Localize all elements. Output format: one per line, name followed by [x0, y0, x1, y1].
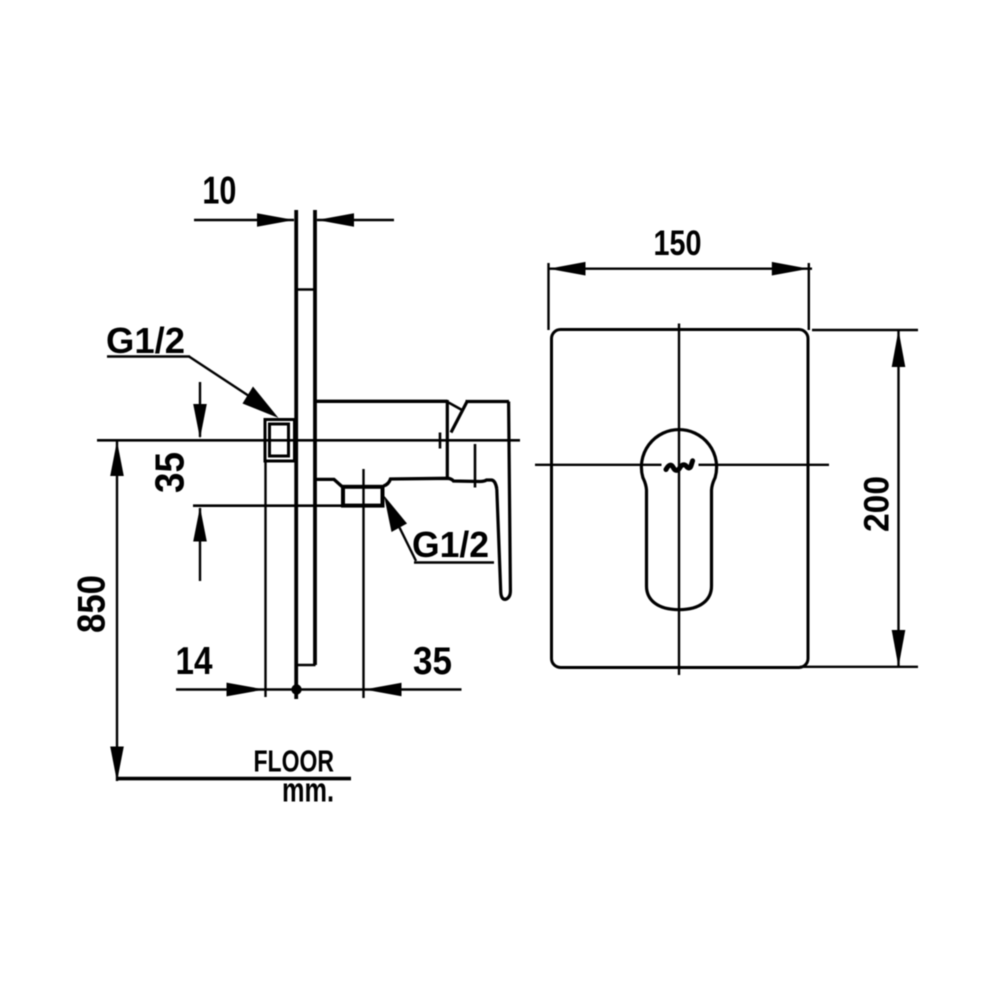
svg-text:150: 150: [654, 224, 702, 263]
cartridge tick lower: [474, 444, 477, 488]
svg-text:35: 35: [413, 640, 452, 683]
dimension 10 line left: [194, 219, 294, 221]
label G1/2 bottom underline: [414, 561, 494, 563]
body bottom edge with dip: [315, 478, 497, 489]
outlet fitting G1/2 bottom: [343, 487, 383, 506]
svg-text:10: 10: [202, 170, 236, 213]
dimension 35 left upper line: [199, 382, 201, 437]
dimension 10 arrow left-pointing: [317, 213, 354, 227]
dimension 200 arrow down: [892, 630, 906, 667]
handle lever outline: [497, 402, 511, 600]
wall right line: [313, 210, 317, 665]
dimension 150 extension left: [547, 263, 549, 330]
svg-text:850: 850: [71, 575, 114, 633]
dimension 35 left lower arrow up: [193, 507, 207, 542]
outlet centerline bottom: [193, 504, 383, 507]
dimension 14 arrow right-pointing: [227, 683, 265, 697]
label G1/2 top leader line: [189, 357, 252, 399]
dimension 35 left lower line: [199, 508, 201, 581]
dimension 35 bottom arrow left-pointing: [365, 683, 402, 697]
inlet fitting G1/2 top outer: [265, 420, 295, 462]
svg-text:mm.: mm.: [282, 772, 334, 810]
dimension 35 left upper arrow down: [193, 404, 207, 439]
label G1/2 top underline: [107, 355, 190, 357]
dimension 850 line: [116, 441, 118, 781]
svg-text:G1/2: G1/2: [106, 320, 185, 361]
label G1/2 top leader arrowhead: [243, 387, 279, 419]
wall bottom cap: [296, 664, 316, 666]
mixer body right edge: [446, 400, 449, 478]
label G1/2 bottom leader arrowhead: [384, 496, 407, 533]
pipe centerline top: [97, 439, 520, 442]
svg-text:G1/2: G1/2: [412, 524, 489, 565]
keyhole cutout: [641, 430, 716, 610]
inlet fitting G1/2 top inner: [270, 424, 289, 456]
dimension 200 line: [897, 330, 899, 667]
center scribble mark: [666, 461, 693, 471]
cartridge tick at centerline: [439, 433, 442, 449]
label G1/2 bottom leader line: [400, 528, 417, 562]
handle cap slant: [451, 402, 467, 433]
body chamfer diagonal: [449, 403, 463, 411]
svg-text:14: 14: [176, 640, 213, 683]
extension line from outlet fitting down: [362, 469, 364, 698]
dimension 150 extension right: [808, 263, 810, 330]
chain dot: [291, 684, 301, 694]
svg-text:200: 200: [858, 476, 897, 532]
plate vertical centerline: [678, 324, 680, 676]
floor line: [116, 777, 351, 781]
dimension 150 arrow right-pointing: [772, 262, 809, 276]
dimension 150 line: [549, 268, 813, 270]
dimension 10 line right: [317, 219, 394, 221]
escutcheon plate: [552, 330, 809, 668]
wall left line: [294, 210, 298, 699]
mixer body top edge: [314, 400, 448, 403]
dimension 850 arrow up: [110, 441, 124, 476]
dimension 10 arrow right-pointing: [257, 213, 294, 227]
dimension 850 arrow down: [110, 747, 124, 782]
handle top edge: [466, 400, 510, 403]
plate horizontal centerline left: [535, 464, 662, 466]
plate horizontal centerline right: [699, 464, 830, 466]
dimension 150 arrow left-pointing: [549, 262, 586, 276]
wall break tick: [296, 288, 315, 290]
dimension 200 arrow up: [892, 330, 906, 367]
svg-text:35: 35: [147, 452, 193, 493]
dimension chain line bottom: [176, 688, 462, 690]
dimension 200 extension bottom: [800, 666, 918, 668]
dimension 200 extension top: [812, 329, 918, 331]
extension line from inlet fitting down: [264, 461, 266, 697]
